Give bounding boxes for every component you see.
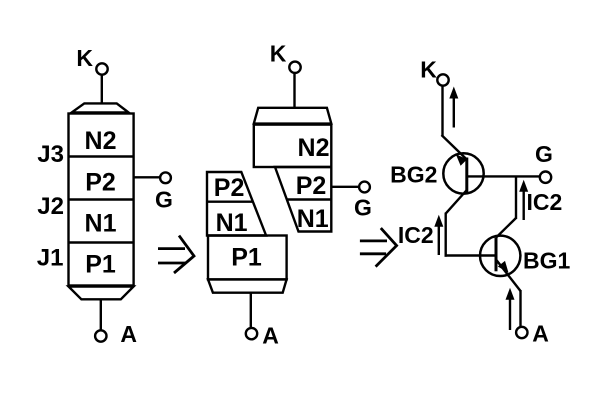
terminal K circle (left stack) xyxy=(96,63,107,74)
svg-text:N2: N2 xyxy=(298,134,330,162)
svg-text:P1: P1 xyxy=(231,244,262,272)
current arrow IC2 (right) xyxy=(519,180,528,220)
transistor BG2 circle xyxy=(443,153,483,193)
terminal K circle (middle) xyxy=(289,62,300,73)
label G (middle) xyxy=(354,195,372,221)
wire BG1 collector vertical to G line xyxy=(515,176,517,219)
right column P2/N1 block (middle) xyxy=(275,167,331,232)
wire BG2 collector vertical xyxy=(445,213,447,257)
terminal G circle (middle) xyxy=(359,182,370,193)
svg-text:IC2: IC2 xyxy=(527,189,563,215)
svg-text:P2: P2 xyxy=(85,169,116,197)
left column P2/N1 divider xyxy=(207,200,253,202)
left column P2/N1 block (middle) xyxy=(207,172,266,236)
layer N2 label (middle) xyxy=(298,134,330,162)
wire gate lead (middle) xyxy=(331,186,359,188)
wire base BG1 horizontal xyxy=(445,254,497,256)
wire K lead (middle) xyxy=(293,73,295,108)
label K (middle) xyxy=(270,41,287,67)
junction J1 line xyxy=(69,241,134,243)
current arrow at K xyxy=(449,87,458,128)
wire gate lead (left stack) xyxy=(134,176,160,178)
current arrow at A xyxy=(506,288,515,330)
svg-text:J2: J2 xyxy=(37,193,64,220)
layer N1 label (left stack) xyxy=(85,210,117,238)
label K (left stack) xyxy=(76,45,93,71)
double arrow 2 xyxy=(360,228,397,267)
transistor BG2 collector diagonal xyxy=(446,190,467,214)
svg-text:G: G xyxy=(354,195,372,221)
terminal K circle (circuit) xyxy=(437,74,448,85)
transistor BG1 circle xyxy=(480,236,520,276)
svg-text:K: K xyxy=(420,57,437,83)
transistor BG1 collector diagonal xyxy=(496,218,516,238)
terminal A circle (circuit) xyxy=(516,327,527,338)
svg-text:BG2: BG2 xyxy=(390,161,437,187)
layer stack outline xyxy=(69,114,134,286)
transistor BG1 base bar xyxy=(495,238,498,272)
svg-text:J3: J3 xyxy=(37,141,64,168)
label J1 xyxy=(37,245,64,272)
layer N1 label (middle left) xyxy=(216,209,248,237)
svg-text:A: A xyxy=(262,323,279,349)
transistor BG2 emitter with arrow to K xyxy=(442,135,468,166)
transistor BG2 base bar xyxy=(465,158,468,193)
svg-text:G: G xyxy=(535,141,553,167)
double arrow 1 xyxy=(158,236,194,273)
svg-text:N2: N2 xyxy=(85,127,117,155)
layer P1 label (left stack) xyxy=(85,251,116,279)
anode cap (middle) xyxy=(208,279,287,292)
label BG2 xyxy=(390,161,437,187)
label K (circuit) xyxy=(420,57,437,83)
label BG1 xyxy=(523,248,571,274)
wire K lead vertical (circuit) xyxy=(441,86,443,136)
label J2 xyxy=(37,193,64,220)
cathode contact cap (top trapezoid) xyxy=(72,103,129,112)
layer P2 label (left stack) xyxy=(85,169,116,197)
svg-text:G: G xyxy=(155,187,173,213)
label J3 xyxy=(37,141,64,168)
terminal A circle (left stack) xyxy=(95,330,106,341)
layer N2 label (left stack) xyxy=(85,127,117,155)
svg-text:P2: P2 xyxy=(296,172,327,200)
svg-text:N1: N1 xyxy=(216,209,248,237)
svg-text:A: A xyxy=(532,320,549,346)
wire K lead (left stack) xyxy=(101,75,103,104)
layer P2 label (middle right) xyxy=(296,172,327,200)
terminal G circle (circuit) xyxy=(540,172,551,183)
junction J3 line xyxy=(69,155,134,157)
layer N2 block (middle) xyxy=(254,125,331,167)
current arrow IC2 (left) xyxy=(434,215,443,255)
layer N1 label (middle right) xyxy=(297,205,329,233)
layer P2 label (middle left) xyxy=(214,174,245,202)
right column P2/N1 divider xyxy=(287,198,332,200)
svg-text:N1: N1 xyxy=(85,210,117,238)
svg-text:IC2: IC2 xyxy=(398,222,434,248)
cathode cap (middle) xyxy=(254,108,331,124)
svg-text:BG1: BG1 xyxy=(523,248,571,274)
svg-text:A: A xyxy=(120,321,137,347)
transistor BG2 base wire to G xyxy=(467,175,540,177)
layer P1 label (middle) xyxy=(231,244,262,272)
label G (left stack) xyxy=(155,187,173,213)
label A (circuit) xyxy=(532,320,549,346)
label A (left stack) xyxy=(120,321,137,347)
terminal A circle (middle) xyxy=(246,328,257,339)
svg-text:K: K xyxy=(76,45,93,71)
layer P1 block (middle) xyxy=(208,236,287,280)
wire A lead (left stack) xyxy=(100,299,102,330)
svg-text:J1: J1 xyxy=(37,245,64,272)
junction J2 line xyxy=(69,198,134,200)
svg-text:P1: P1 xyxy=(85,251,116,279)
anode contact cap (bottom trapezoid) xyxy=(69,287,134,300)
svg-text:N1: N1 xyxy=(297,205,329,233)
svg-text:K: K xyxy=(270,41,287,67)
label IC2 (right) xyxy=(527,189,563,215)
wire A lead (middle) xyxy=(250,293,252,328)
transistor BG1 emitter with arrow to A xyxy=(496,260,521,292)
label G (circuit) xyxy=(535,141,553,167)
wire A lead vertical (circuit) xyxy=(519,290,521,327)
label IC2 (left) xyxy=(398,222,434,248)
label A (middle) xyxy=(262,323,279,349)
svg-text:P2: P2 xyxy=(214,174,245,202)
terminal G circle (left stack) xyxy=(160,172,171,183)
